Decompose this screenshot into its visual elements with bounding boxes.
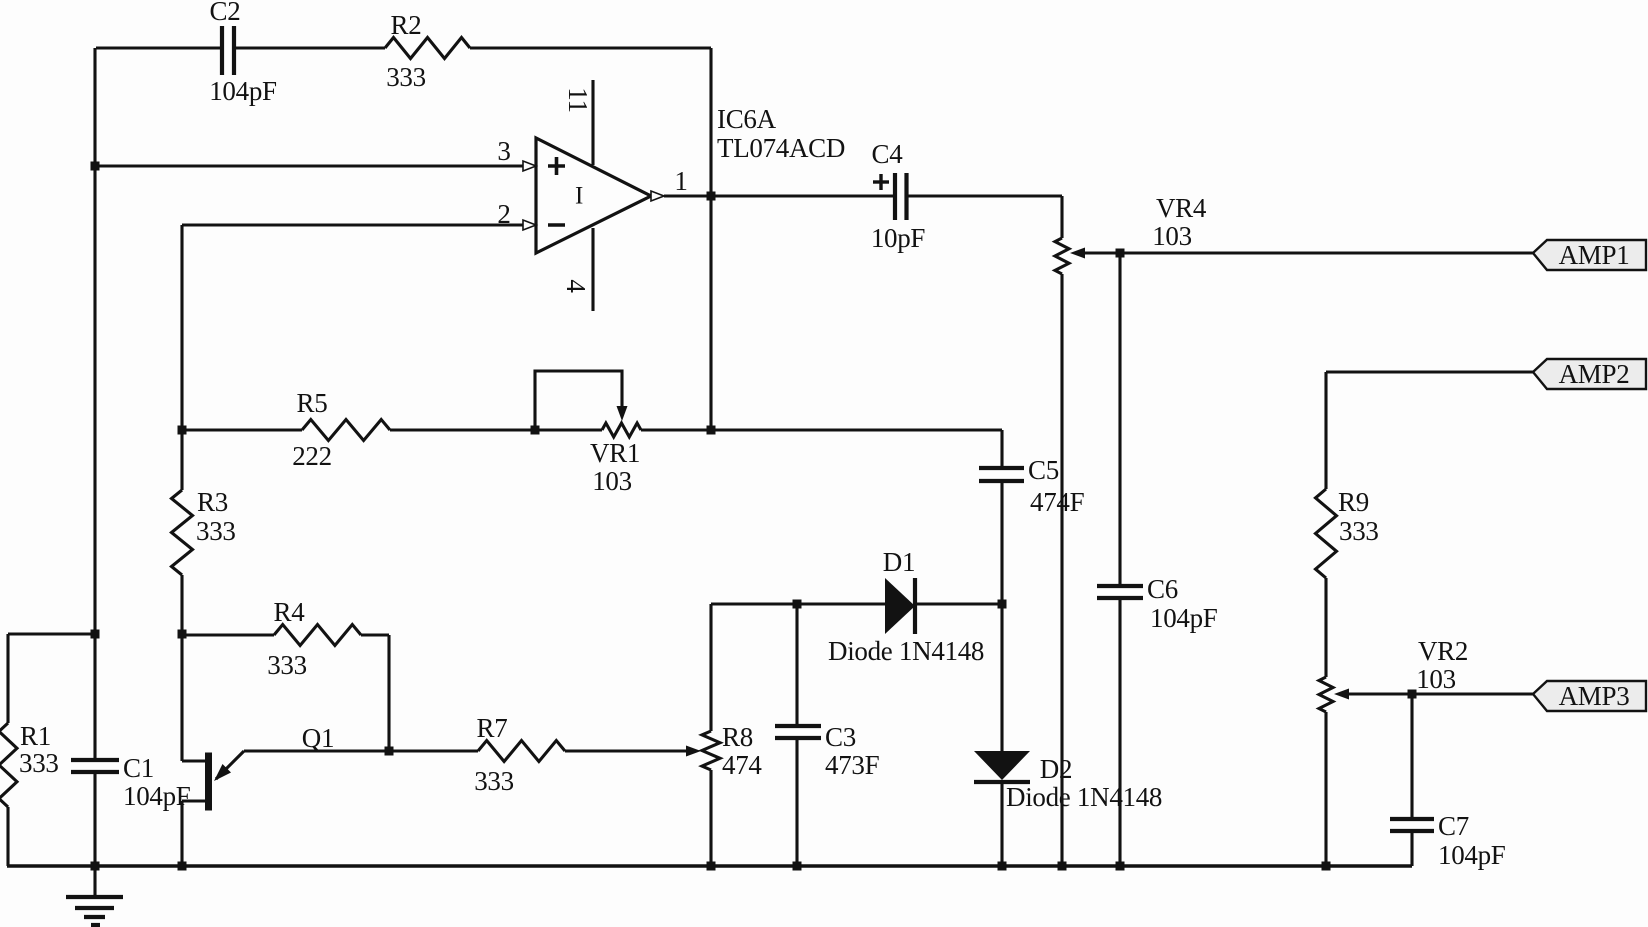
svg-text:I: I (575, 183, 583, 210)
label VR4 (1156, 193, 1207, 223)
wire R7 row (244, 749, 686, 752)
svg-text:1: 1 (674, 166, 687, 196)
svg-text:104pF: 104pF (1150, 603, 1218, 633)
label VR1 (590, 438, 640, 468)
svg-text:R9: R9 (1338, 487, 1369, 517)
wire R1 branch (6, 634, 9, 866)
node junction VR2 C7 (1408, 690, 1417, 699)
capacitor C4 (895, 173, 907, 220)
wire C7 branch (1410, 694, 1413, 866)
wire D1 row (711, 602, 1002, 605)
node junction VR1 right (707, 426, 716, 435)
label pin 2 (497, 199, 510, 229)
wire left rail (93, 48, 96, 866)
wire VR2 to AMP3 (1349, 692, 1533, 695)
node junction R4 R7 (385, 747, 394, 756)
svg-text:474F: 474F (1030, 487, 1085, 517)
label pin 3 (497, 136, 510, 166)
VR1 wiper arrowhead (617, 406, 628, 421)
pin 2 arrowhead (523, 220, 536, 230)
ground (66, 866, 123, 925)
svg-text:474: 474 (722, 750, 762, 780)
svg-text:103: 103 (592, 466, 632, 496)
label C3 value 473F (825, 750, 880, 780)
svg-text:4: 4 (561, 279, 591, 293)
label C6 value 104pF (1150, 603, 1218, 633)
label R9 value 333 (1339, 516, 1379, 546)
svg-text:103: 103 (1152, 221, 1192, 251)
svg-text:R4: R4 (274, 597, 306, 627)
svg-text:R2: R2 (391, 10, 422, 40)
wire output to C4 (664, 194, 895, 197)
node junction Q1 bottom (178, 862, 187, 871)
wire pin 2 input (182, 225, 524, 430)
svg-text:103: 103 (1416, 664, 1456, 694)
label R4 value 333 (267, 650, 307, 680)
label Q1 (302, 723, 334, 753)
svg-text:R8: R8 (722, 722, 753, 752)
wire C4 to VR4 corner (907, 194, 1063, 197)
VR2 wiper arrowhead (1334, 689, 1349, 700)
label VR1 value 103 (592, 466, 632, 496)
node junction R9 bottom (1322, 862, 1331, 871)
wire AMP2 to R9 (1326, 372, 1533, 489)
label C1 value 104pF (123, 781, 191, 811)
diode D2 (974, 751, 1030, 782)
label C6 (1147, 574, 1178, 604)
capacitor C5 (979, 468, 1024, 481)
label R9 (1338, 487, 1369, 517)
potentiometer VR2 (1319, 677, 1333, 712)
wire Q1 lower stub (182, 801, 206, 866)
wire C5 branch (1000, 430, 1003, 604)
pin 1 output arrowhead (651, 191, 664, 201)
wire R9 to VR2 (1324, 578, 1327, 677)
R7 arrowhead into R8 (686, 746, 701, 757)
connector AMP1 (1533, 240, 1646, 270)
connector AMP2 (1533, 359, 1646, 389)
svg-text:C5: C5 (1028, 455, 1059, 485)
wire Q1 base branch (182, 634, 206, 761)
svg-text:R3: R3 (197, 487, 228, 517)
label R3 (197, 487, 228, 517)
label R8 (722, 722, 753, 752)
svg-text:Diode 1N4148: Diode 1N4148 (1006, 782, 1162, 812)
wire C6 branch (1118, 253, 1121, 866)
label C3 (825, 722, 856, 752)
label C1 (123, 753, 154, 783)
label pin 4 (561, 279, 591, 293)
wire VR4 to AMP1 (1085, 251, 1533, 254)
wire pin 3 input (95, 164, 524, 167)
label R2 (391, 10, 422, 40)
node junction D1 D2 (998, 600, 1007, 609)
svg-text:C4: C4 (872, 139, 904, 169)
svg-text:IC6A: IC6A (717, 104, 777, 134)
potentiometer VR4 (1055, 238, 1069, 274)
label C4 (872, 139, 904, 169)
svg-text:104pF: 104pF (1438, 840, 1506, 870)
label D2 Diode 1N4148 (1006, 782, 1162, 812)
svg-text:C3: C3 (825, 722, 856, 752)
svg-text:C1: C1 (123, 753, 154, 783)
svg-text:473F: 473F (825, 750, 880, 780)
label C4 value 10pF (871, 223, 926, 253)
wire C3 branch (795, 604, 798, 866)
node junction C6 bottom (1116, 862, 1125, 871)
node junction D2 bottom (998, 862, 1007, 871)
capacitor C3 (775, 726, 821, 738)
svg-text:333: 333 (196, 516, 236, 546)
op-amp plus input sign (548, 157, 565, 175)
resistor R1 (0, 723, 17, 807)
resistor R2 (385, 38, 470, 59)
connector AMP3 (1533, 681, 1646, 711)
wire R8 branch (709, 604, 712, 866)
node junction VR4 wiper (1116, 249, 1125, 258)
node junction left C1 top (91, 630, 100, 639)
svg-text:104pF: 104pF (209, 76, 277, 106)
svg-text:333: 333 (474, 766, 514, 796)
svg-text:D2: D2 (1040, 754, 1072, 784)
svg-text:2: 2 (497, 199, 510, 229)
node junction C3 bottom (793, 862, 802, 871)
svg-text:Diode 1N4148: Diode 1N4148 (828, 636, 984, 666)
label C7 value 104pF (1438, 840, 1506, 870)
capacitor C6 (1097, 586, 1143, 598)
svg-text:VR1: VR1 (590, 438, 640, 468)
label C5 value 474F (1030, 487, 1085, 517)
resistor R4 (274, 625, 361, 646)
label R2 value 333 (386, 62, 426, 92)
node junction left pin3 (91, 162, 100, 171)
node junction R3 R4 (178, 630, 187, 639)
node junction output feedback (707, 192, 716, 201)
node junction VR1 bridge left (531, 426, 540, 435)
node junction left bottom (91, 862, 100, 871)
label D1 (883, 547, 915, 577)
capacitor C2 (222, 26, 234, 75)
label R5 (297, 388, 328, 418)
svg-text:C6: C6 (1147, 574, 1178, 604)
svg-text:R5: R5 (297, 388, 328, 418)
wire feedback rail (709, 48, 712, 430)
label AMP3 (1559, 681, 1630, 711)
pin 11 stub (591, 80, 594, 165)
label R7 value 333 (474, 766, 514, 796)
label AMP2 (1559, 359, 1630, 389)
svg-text:VR4: VR4 (1156, 193, 1207, 223)
svg-text:R7: R7 (477, 713, 508, 743)
label VR2 (1418, 636, 1468, 666)
wire VR4 branch (1060, 196, 1063, 866)
node junction R5 left (178, 426, 187, 435)
wire R5 row (182, 428, 1002, 431)
resistor R5 (302, 420, 390, 441)
op-amp minus input sign (548, 223, 565, 227)
svg-text:D1: D1 (883, 547, 915, 577)
C4 plus polarity sign (873, 174, 889, 190)
wire R4 row (182, 635, 389, 751)
svg-text:11: 11 (563, 87, 593, 112)
label R3 value 333 (196, 516, 236, 546)
wire top rail (96, 46, 711, 49)
transistor Q1 emitter wire (216, 751, 244, 779)
label R1 value 333 (19, 748, 59, 778)
label AMP1 (1559, 240, 1630, 270)
label C7 (1438, 811, 1469, 841)
label D2 (1040, 754, 1072, 784)
svg-text:333: 333 (267, 650, 307, 680)
svg-text:222: 222 (292, 441, 332, 471)
node junction R8 bottom (707, 862, 716, 871)
resistor R9 (1316, 489, 1337, 578)
capacitor C1 (71, 760, 119, 772)
pin 4 stub (591, 228, 594, 311)
svg-text:333: 333 (19, 748, 59, 778)
capacitor C7 (1390, 819, 1434, 831)
resistor R8 trimmer (702, 731, 720, 770)
svg-text:333: 333 (1339, 516, 1379, 546)
label C2 (210, 0, 241, 26)
label pin 1 (674, 166, 687, 196)
svg-text:R1: R1 (20, 721, 51, 751)
VR4 wiper arrowhead (1070, 248, 1085, 259)
label VR4 value 103 (1152, 221, 1192, 251)
svg-text:Q1: Q1 (302, 723, 334, 753)
resistor R3 (172, 490, 193, 575)
label R5 value 222 (292, 441, 332, 471)
label C2 value 104pF (209, 76, 277, 106)
svg-text:10pF: 10pF (871, 223, 926, 253)
svg-text:TL074ACD: TL074ACD (717, 133, 845, 163)
svg-text:AMP1: AMP1 (1559, 240, 1630, 270)
label C5 (1028, 455, 1059, 485)
wire R3 branch (180, 430, 183, 634)
label R4 (274, 597, 306, 627)
diode D1 (885, 578, 915, 634)
wire VR2 bottom (1324, 712, 1327, 866)
wire R1 top (8, 632, 95, 635)
resistor R7 (478, 741, 565, 762)
label VR2 value 103 (1416, 664, 1456, 694)
svg-text:AMP2: AMP2 (1559, 359, 1630, 389)
svg-text:3: 3 (497, 136, 510, 166)
label pin 11 (563, 87, 593, 112)
wire D2 branch (1000, 604, 1003, 866)
node junction VR4 bottom (1058, 862, 1067, 871)
transistor Q1 bar (205, 753, 212, 811)
svg-text:VR2: VR2 (1418, 636, 1468, 666)
svg-text:333: 333 (386, 62, 426, 92)
op-amp internal label I (575, 183, 583, 210)
svg-text:C2: C2 (210, 0, 241, 26)
label IC6A (717, 104, 777, 134)
op-amp IC6A triangle (536, 138, 651, 253)
transistor Q1 emitter arrowhead (214, 764, 231, 781)
label R1 (20, 721, 51, 751)
label R8 value 474 (722, 750, 762, 780)
label D1 Diode 1N4148 (828, 636, 984, 666)
label R7 (477, 713, 508, 743)
svg-text:C7: C7 (1438, 811, 1469, 841)
label TL074ACD (717, 133, 845, 163)
wire bottom rail (7, 864, 1412, 867)
VR1 wiper bridge wire (535, 371, 622, 430)
potentiometer VR1 (602, 423, 641, 437)
svg-text:AMP3: AMP3 (1559, 681, 1630, 711)
pin 3 arrowhead (523, 161, 536, 171)
node junction C3 top (793, 600, 802, 609)
